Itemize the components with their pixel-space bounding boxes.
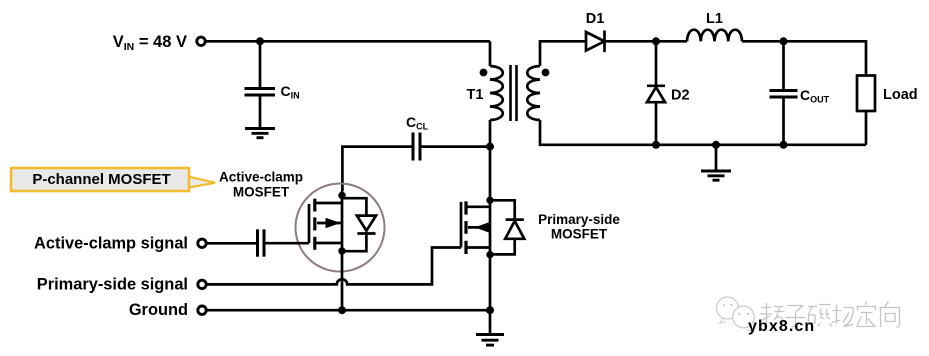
svg-text:CIN: CIN <box>281 83 300 101</box>
capacitor CIN <box>245 89 276 96</box>
svg-text:D2: D2 <box>671 88 690 104</box>
node secondary ground junction <box>712 141 720 149</box>
svg-text:CCL: CCL <box>406 114 429 132</box>
wire top rail <box>206 40 491 43</box>
transformer primary dot <box>480 69 488 77</box>
diode D2 <box>647 86 665 102</box>
transformer T1 secondary winding <box>527 66 540 120</box>
terminal active-clamp signal <box>198 239 206 247</box>
svg-text:Active-clamp: Active-clamp <box>219 169 303 184</box>
wire D2 to bottom rail <box>655 102 658 145</box>
svg-text:Load: Load <box>883 87 918 103</box>
wire D1 to L1 node <box>605 40 688 43</box>
wire secondary top lead <box>540 41 586 66</box>
wire CIN to ground <box>259 97 262 128</box>
wire primary bottom lead <box>489 120 492 147</box>
node primary source ground junction <box>486 306 494 314</box>
wire CIN branch <box>259 41 262 87</box>
svg-text:P-channel MOSFET: P-channel MOSFET <box>32 171 170 188</box>
capacitor AC coupling <box>258 229 265 256</box>
ground secondary <box>701 171 731 180</box>
svg-text:MOSFET: MOSFET <box>551 227 608 242</box>
svg-text:Primary-side signal: Primary-side signal <box>37 275 188 293</box>
capacitor CCL <box>413 133 420 161</box>
svg-text:MOSFET: MOSFET <box>233 184 290 199</box>
transformer secondary dot <box>542 69 550 77</box>
svg-text:T1: T1 <box>467 87 484 103</box>
wire AC signal to cap <box>207 242 257 245</box>
svg-text:COUT: COUT <box>800 87 830 105</box>
svg-text:L1: L1 <box>706 11 723 27</box>
watermark logo <box>717 297 755 332</box>
transistor Q2 primary-side MOSFET <box>461 147 494 311</box>
wire cap to gate <box>266 242 310 245</box>
node D1 cathode junction <box>652 37 660 45</box>
wire load bottom <box>865 111 868 145</box>
svg-text:ybx8.cn: ybx8.cn <box>748 318 815 335</box>
transformer T1 primary winding <box>490 66 503 120</box>
wire output top right <box>784 41 867 75</box>
wire CCL to clamp MOSFET <box>342 147 411 191</box>
node D2 bottom junction <box>652 141 660 149</box>
diode primary body diode <box>490 200 524 254</box>
node primary bottom junction <box>486 143 494 151</box>
ground below CIN <box>245 129 275 138</box>
callout box P-channel MOSFET <box>11 168 215 191</box>
wire COUT branch top <box>782 41 785 89</box>
svg-text:Ground: Ground <box>129 301 188 319</box>
terminal ground <box>198 306 206 314</box>
node L1 output junction <box>780 37 788 45</box>
node COUT bottom junction <box>780 141 788 149</box>
wire primary top lead <box>489 41 492 66</box>
svg-text:Primary-side: Primary-side <box>538 212 620 227</box>
ellipse highlight circle <box>296 184 385 272</box>
diode clamp body diode <box>342 198 376 251</box>
inductor L1 <box>687 30 742 42</box>
ground main <box>476 335 504 346</box>
wire clamp branch <box>422 145 491 148</box>
wire L1 to COUT node <box>742 40 784 43</box>
transformer T1 core <box>511 65 517 121</box>
capacitor COUT <box>770 91 798 98</box>
wire secondary ground stem <box>715 145 718 170</box>
wire D2 branch top <box>655 41 658 84</box>
terminal primary-side signal <box>198 280 206 288</box>
svg-text:D1: D1 <box>586 11 605 27</box>
watermark chinese text <box>761 302 900 328</box>
terminal VIN <box>197 37 205 45</box>
transistor Q1 active-clamp MOSFET <box>309 191 346 310</box>
wire ground rail <box>207 309 491 312</box>
resistor Load <box>857 76 875 112</box>
svg-text:VIN = 48 V: VIN = 48 V <box>113 33 187 53</box>
wire main ground stem <box>489 310 492 333</box>
wire PS signal with hop <box>207 248 462 285</box>
node clamp source ground junction <box>338 306 346 314</box>
svg-text:Active-clamp signal: Active-clamp signal <box>34 234 188 252</box>
wire COUT branch bottom <box>782 99 785 145</box>
diode D1 <box>586 31 605 53</box>
node input junction <box>256 37 264 45</box>
wire secondary bottom rail <box>540 120 866 145</box>
